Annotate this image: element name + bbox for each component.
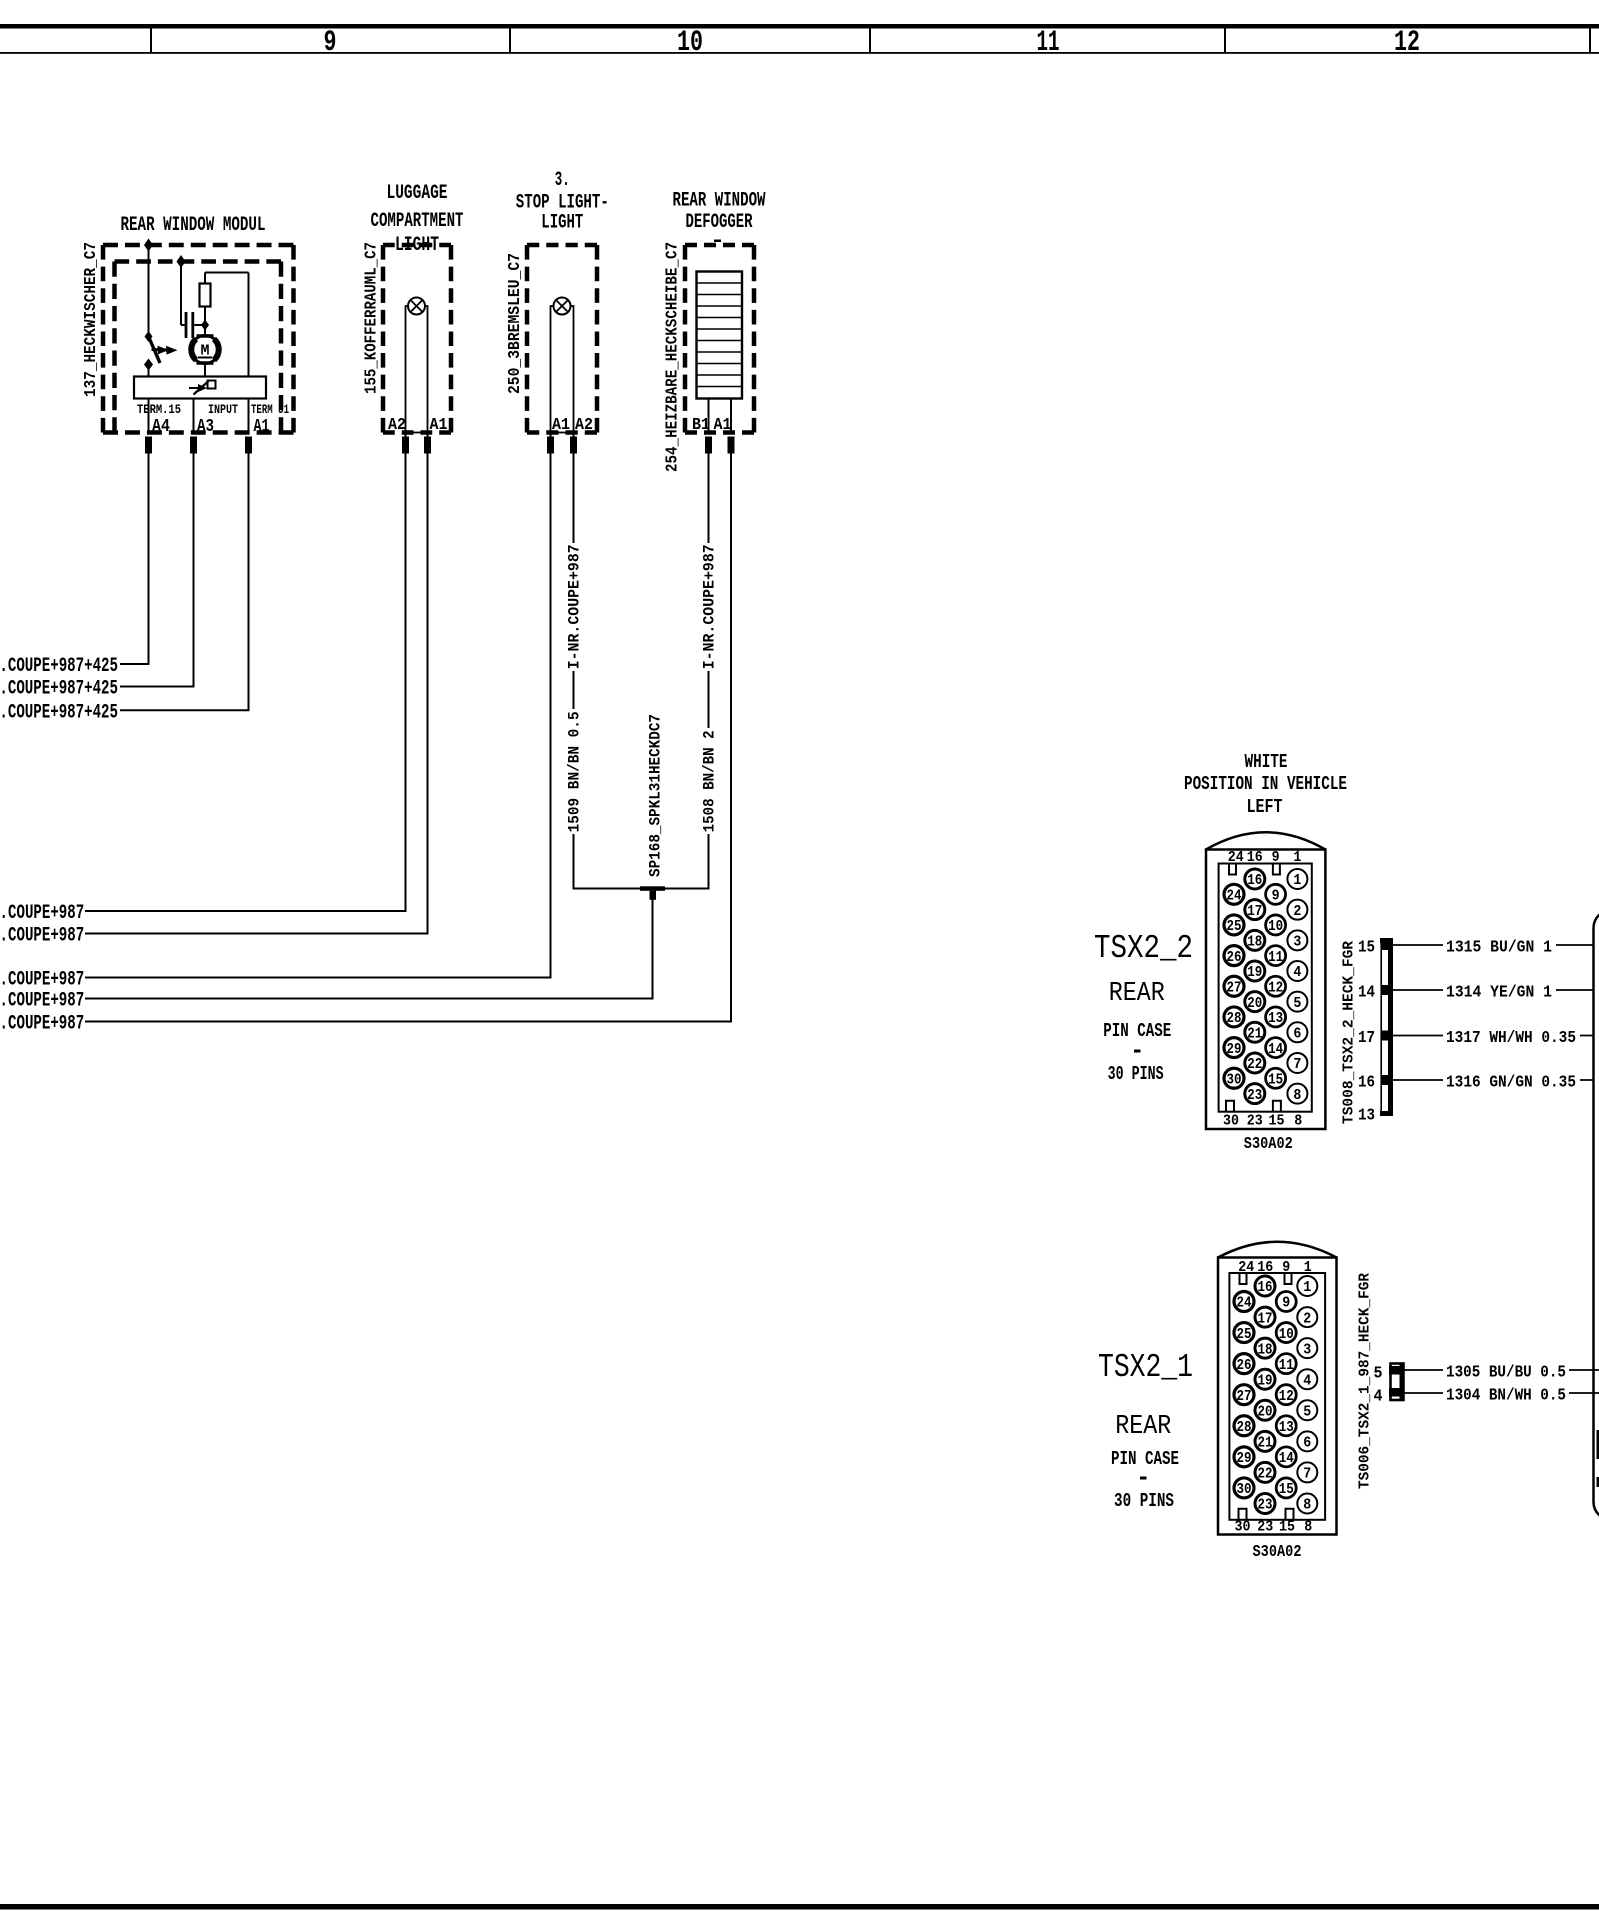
svg-text:A2: A2: [388, 416, 406, 435]
svg-text:20: 20: [1247, 996, 1262, 1012]
svg-text:I-NR.COUPE+987+425: I-NR.COUPE+987+425: [0, 655, 118, 678]
svg-text:8: 8: [1304, 1519, 1312, 1536]
wire 250-A1 to I-NR.COUPE+987: [85, 454, 551, 978]
svg-text:REAR WINDOW: REAR WINDOW: [673, 189, 766, 212]
border column strip line: [0, 52, 1599, 54]
svg-text:1509 BN/BN 0.5: 1509 BN/BN 0.5: [566, 711, 584, 832]
svg-text:11: 11: [1279, 1358, 1294, 1374]
svg-text:11: 11: [1268, 950, 1283, 966]
wire A4 below block: [148, 399, 150, 433]
wire switch to control block: [148, 365, 150, 377]
svg-text:1317 WH/WH 0.35: 1317 WH/WH 0.35: [1446, 1029, 1576, 1048]
svg-text:A1: A1: [714, 416, 732, 435]
svg-text:23: 23: [1257, 1519, 1273, 1536]
svg-text:29: 29: [1237, 1451, 1252, 1467]
svg-text:PIN CASE: PIN CASE: [1103, 1020, 1171, 1042]
svg-text:INPUT: INPUT: [208, 402, 238, 417]
svg-text:7: 7: [1293, 1057, 1301, 1073]
wire A1 to I-NR.COUPE+987+425: [120, 454, 249, 711]
wire 1314 YE/GN 1: [1393, 989, 1594, 991]
transistor Q1 symbol: [189, 387, 201, 389]
node on inner box top edge (input feed): [177, 255, 186, 268]
svg-text:25: 25: [1227, 919, 1242, 935]
pin A1: [245, 437, 252, 454]
svg-text:9: 9: [1272, 849, 1280, 866]
wire 155-A2 to I-NR.COUPE+987: [85, 454, 406, 912]
svg-text:30: 30: [1235, 1519, 1251, 1536]
svg-text:TERM 31: TERM 31: [251, 402, 289, 417]
svg-text:12: 12: [1279, 1389, 1294, 1405]
border bottom thick line: [0, 1904, 1599, 1910]
svg-text:30: 30: [1237, 1482, 1252, 1498]
svg-text:30 PINS: 30 PINS: [1114, 1490, 1174, 1512]
svg-text:25: 25: [1237, 1327, 1252, 1343]
connector TSX2_2 dome: [1206, 832, 1325, 849]
svg-text:TERM.15: TERM.15: [137, 402, 181, 417]
svg-text:1305 BU/BU 0.5: 1305 BU/BU 0.5: [1446, 1364, 1566, 1383]
TSX2_2 top notches: [1229, 864, 1236, 875]
svg-text:254_HEIZBARE_HECKSCHEIBE_C7: 254_HEIZBARE_HECKSCHEIBE_C7: [664, 242, 683, 472]
TSX2_2 pin grid (pins 1-30): [1287, 869, 1307, 889]
svg-text:A1: A1: [552, 416, 570, 435]
right module vertical label fragment: [1597, 1430, 1599, 1459]
svg-text:13: 13: [1268, 1011, 1283, 1027]
connector TSX2_1 inner body: [1229, 1273, 1325, 1520]
svg-text:13: 13: [1358, 1107, 1375, 1126]
svg-text:28: 28: [1237, 1420, 1252, 1436]
wire stubs to pins (250): [550, 433, 552, 438]
svg-text:LUGGAGE: LUGGAGE: [387, 182, 448, 205]
component 250_3BREMSLEU_C7 dashed box: [527, 243, 597, 248]
svg-text:REAR: REAR: [1115, 1412, 1171, 1442]
connector TSX2_1 outer body: [1218, 1258, 1337, 1535]
motor M1: [191, 336, 219, 364]
wire 1317 WH/WH 0.35: [1393, 1035, 1594, 1037]
svg-text:TS008_TSX2_2_HECK_FGR: TS008_TSX2_2_HECK_FGR: [1341, 941, 1358, 1124]
svg-text:8: 8: [1303, 1498, 1311, 1514]
svg-text:17: 17: [1247, 904, 1262, 920]
svg-text:POSITION IN VEHICLE: POSITION IN VEHICLE: [1184, 773, 1347, 795]
lamp E1 (bulb): [408, 298, 425, 315]
resistor R1: [200, 284, 211, 307]
svg-text:WHITE: WHITE: [1245, 751, 1288, 773]
wire resistor bottom to motor: [204, 307, 206, 336]
svg-text:1304 BN/WH 0.5: 1304 BN/WH 0.5: [1446, 1387, 1566, 1406]
wire 1509 BN/BN 0.5 (250-A2 to splice): [574, 454, 641, 889]
pin A1 (254): [728, 437, 735, 454]
svg-text:15: 15: [1268, 1072, 1283, 1088]
svg-text:18: 18: [1258, 1342, 1273, 1358]
svg-text:19: 19: [1258, 1373, 1273, 1389]
svg-text:TSX2_1: TSX2_1: [1098, 1349, 1193, 1386]
svg-text:24: 24: [1228, 849, 1244, 866]
svg-text:A2: A2: [575, 416, 593, 435]
connector TSX2_2 inner body: [1219, 864, 1312, 1112]
svg-text:15: 15: [1279, 1519, 1295, 1536]
svg-text:4: 4: [1293, 965, 1301, 981]
svg-text:I-NR.COUPE+987: I-NR.COUPE+987: [701, 544, 719, 669]
svg-text:16: 16: [1247, 873, 1262, 889]
svg-text:12: 12: [1394, 26, 1420, 60]
svg-text:A3: A3: [197, 417, 214, 437]
connector TSX2_1 dome: [1218, 1242, 1337, 1258]
control block (output stage): [134, 377, 266, 399]
svg-text:I-NR.COUPE+987+425: I-NR.COUPE+987+425: [0, 678, 118, 701]
svg-text:REAR WINDOW MODUL: REAR WINDOW MODUL: [121, 214, 266, 237]
svg-text:A1: A1: [430, 416, 448, 435]
wire splice to I-NR.COUPE+987: [85, 899, 653, 999]
svg-text:5: 5: [1303, 1404, 1311, 1420]
wire 1316 GN/GN 0.35: [1393, 1079, 1594, 1081]
svg-text:DEFOGGER: DEFOGGER: [686, 211, 753, 234]
node capacitor-motor junction: [201, 320, 209, 331]
svg-text:30 PINS: 30 PINS: [1108, 1063, 1164, 1085]
svg-text:1: 1: [1303, 1280, 1311, 1296]
svg-text:I-NR.COUPE+987: I-NR.COUPE+987: [566, 544, 584, 669]
svg-text:I-NR.COUPE+987: I-NR.COUPE+987: [0, 925, 84, 948]
switch S (wiper switch): [145, 331, 153, 342]
svg-text:10: 10: [677, 26, 703, 60]
svg-text:1316 GN/GN 0.35: 1316 GN/GN 0.35: [1446, 1074, 1576, 1093]
pin A4: [145, 437, 152, 454]
wire 1304 BN/WH 0.5: [1404, 1392, 1599, 1394]
TSX2_1 bracket to harness: [1391, 1364, 1404, 1401]
svg-text:23: 23: [1258, 1498, 1273, 1514]
wire 1508 BN/BN 2 (254-B1 to splice): [665, 454, 709, 889]
svg-text:S30A02: S30A02: [1253, 1543, 1302, 1562]
svg-text:28: 28: [1227, 1011, 1242, 1027]
svg-text:18: 18: [1247, 935, 1262, 951]
TSX2_1 top notches: [1240, 1273, 1247, 1284]
svg-text:29: 29: [1227, 1042, 1242, 1058]
label - (TSX2_1): [1140, 1477, 1147, 1480]
svg-text:26: 26: [1227, 950, 1242, 966]
svg-text:A4: A4: [152, 417, 170, 437]
label 1509 BN/BN 0.5: [565, 709, 582, 834]
svg-text:A1: A1: [254, 417, 270, 437]
wire A1 from heater: [730, 399, 732, 433]
lamp body rect 155: [406, 306, 428, 433]
border top thick line: [0, 24, 1599, 29]
svg-text:24: 24: [1238, 1259, 1254, 1276]
node on outer box top edge (term15 feed): [144, 239, 153, 252]
svg-text:3.: 3.: [555, 169, 570, 192]
svg-text:6: 6: [1303, 1436, 1311, 1452]
wire 155-A1 to I-NR.COUPE+987: [85, 454, 428, 934]
svg-text:9: 9: [1272, 889, 1280, 905]
svg-text:5: 5: [1374, 1365, 1383, 1384]
pin A1 (155): [424, 437, 431, 454]
svg-text:TS006_TSX2_1_987_HECK_FGR: TS006_TSX2_1_987_HECK_FGR: [1357, 1273, 1374, 1489]
pin A2 (250): [570, 437, 577, 454]
svg-text:1314 YE/GN 1: 1314 YE/GN 1: [1446, 984, 1552, 1003]
svg-text:10: 10: [1268, 919, 1283, 935]
label - (TSX2_2): [1134, 1050, 1141, 1053]
lamp E2 (bulb): [554, 298, 571, 315]
wire resistor top to A1 branch: [205, 272, 249, 274]
svg-text:26: 26: [1237, 1358, 1252, 1374]
svg-text:27: 27: [1227, 980, 1242, 996]
svg-text:16: 16: [1247, 849, 1263, 866]
svg-text:I-NR.COUPE+987: I-NR.COUPE+987: [0, 969, 84, 992]
label I-NR.COUPE+987 on wire 1509: [565, 543, 582, 671]
capacitor C1: [181, 324, 185, 326]
svg-text:9: 9: [324, 26, 337, 60]
svg-text:2: 2: [1293, 904, 1301, 920]
svg-text:14: 14: [1279, 1451, 1294, 1467]
svg-text:TSX2_2: TSX2_2: [1094, 930, 1193, 967]
svg-text:PIN CASE: PIN CASE: [1111, 1448, 1179, 1470]
svg-text:30: 30: [1227, 1072, 1242, 1088]
pin B1 (254): [705, 437, 712, 454]
svg-text:9: 9: [1282, 1259, 1290, 1276]
svg-text:19: 19: [1247, 965, 1262, 981]
svg-text:16: 16: [1258, 1280, 1273, 1296]
svg-text:S30A02: S30A02: [1244, 1135, 1293, 1154]
svg-text:23: 23: [1247, 1113, 1263, 1130]
svg-text:16: 16: [1358, 1074, 1375, 1093]
wire A3 below block: [193, 399, 195, 433]
svg-text:5: 5: [1293, 996, 1301, 1012]
svg-text:7: 7: [1303, 1467, 1311, 1483]
svg-text:8: 8: [1293, 1088, 1301, 1104]
svg-text:23: 23: [1247, 1088, 1262, 1104]
component 137_HECKWISCHER_C7 outer dashed box: [103, 243, 294, 248]
pin A3: [190, 437, 197, 454]
defogger top stub: [714, 240, 721, 243]
wire 254-A1 to I-NR.COUPE+987: [85, 454, 731, 1022]
svg-text:11: 11: [1037, 26, 1060, 60]
svg-text:17: 17: [1358, 1029, 1375, 1048]
svg-text:21: 21: [1258, 1436, 1273, 1452]
svg-text:4: 4: [1303, 1373, 1311, 1389]
svg-text:14: 14: [1358, 984, 1375, 1003]
svg-text:155_KOFFERRAUML_C7: 155_KOFFERRAUML_C7: [363, 242, 382, 394]
svg-text:1: 1: [1293, 849, 1301, 866]
svg-text:30: 30: [1223, 1113, 1239, 1130]
border column ticks: [150, 29, 152, 54]
svg-text:20: 20: [1258, 1404, 1273, 1420]
wire input vertical: [180, 262, 182, 326]
svg-text:21: 21: [1247, 1027, 1262, 1043]
svg-text:13: 13: [1279, 1420, 1294, 1436]
svg-text:24: 24: [1237, 1296, 1252, 1312]
svg-text:SP168_SPKL31HECKDC7: SP168_SPKL31HECKDC7: [647, 714, 665, 877]
wire term15 vertical into switch: [148, 245, 150, 336]
splice SP168_SPKL31HECKDC7: [640, 886, 665, 891]
right module rounded box (cut off at page edge): [1594, 910, 1599, 1520]
svg-text:14: 14: [1268, 1042, 1283, 1058]
connector TSX2_2 outer body: [1206, 850, 1325, 1130]
svg-text:15: 15: [1279, 1482, 1294, 1498]
svg-text:I-NR.COUPE+987: I-NR.COUPE+987: [0, 902, 84, 925]
wire B1 from heater: [708, 399, 710, 433]
svg-text:22: 22: [1247, 1057, 1262, 1073]
svg-text:15: 15: [1358, 939, 1375, 958]
pin A2 (155): [402, 437, 409, 454]
label 1508 BN/BN 2: [700, 728, 717, 834]
svg-text:I-NR.COUPE+987: I-NR.COUPE+987: [0, 1013, 84, 1036]
svg-text:10: 10: [1279, 1327, 1294, 1343]
wire motor to control block: [204, 364, 206, 377]
svg-text:27: 27: [1237, 1389, 1252, 1405]
svg-text:LIGHT: LIGHT: [541, 212, 583, 235]
svg-text:B1: B1: [692, 416, 710, 435]
svg-text:COMPARTMENT: COMPARTMENT: [371, 210, 464, 233]
TSX2_1 bottom notches: [1239, 1509, 1247, 1520]
svg-text:1: 1: [1293, 873, 1301, 889]
wire 1305 BU/BU 0.5: [1404, 1369, 1599, 1371]
TSX2_1 pin grid (pins 1-30): [1297, 1276, 1317, 1296]
wire stubs to pins (155): [405, 433, 407, 438]
svg-text:1: 1: [1304, 1259, 1312, 1276]
wire A4 to I-NR.COUPE+987+425: [120, 454, 149, 665]
svg-text:REAR: REAR: [1109, 979, 1165, 1009]
svg-text:4: 4: [1374, 1388, 1383, 1407]
lamp body rect 250: [551, 306, 574, 433]
svg-text:250_3BREMSLEU_C7: 250_3BREMSLEU_C7: [506, 253, 525, 394]
svg-text:9: 9: [1282, 1296, 1290, 1312]
svg-text:6: 6: [1293, 1027, 1301, 1043]
pin A1 (250): [547, 437, 554, 454]
svg-text:15: 15: [1269, 1113, 1285, 1130]
svg-text:1508 BN/BN 2: 1508 BN/BN 2: [701, 730, 719, 832]
svg-text:LIGHT: LIGHT: [395, 234, 439, 257]
TSX2_2 bracket to harness: [1388, 938, 1393, 1116]
component 155_KOFFERRAUML_C7 dashed box: [383, 243, 451, 248]
svg-text:I-NR.COUPE+987+425: I-NR.COUPE+987+425: [0, 701, 118, 724]
svg-text:12: 12: [1268, 980, 1283, 996]
svg-text:LEFT: LEFT: [1247, 796, 1283, 818]
wire A1 below block: [248, 399, 250, 433]
wire 1315 BU/GN 1: [1393, 944, 1594, 946]
svg-text:8: 8: [1294, 1113, 1302, 1130]
svg-text:2: 2: [1303, 1311, 1311, 1327]
label I-NR.COUPE+987 on wire 1508: [700, 543, 717, 671]
svg-text:137_HECKWISCHER_C7: 137_HECKWISCHER_C7: [82, 242, 101, 397]
component 254_HEIZBARE_HECKSCHEIBE_C7 dashed box: [685, 243, 754, 248]
heater element R2 (defogger grid): [697, 272, 743, 399]
TSX2_2 bottom notches: [1226, 1101, 1234, 1112]
svg-text:3: 3: [1293, 935, 1301, 951]
wire A3 to I-NR.COUPE+987+425: [120, 454, 194, 687]
svg-text:16: 16: [1257, 1259, 1273, 1276]
component 137 inner dashed box: [112, 262, 117, 433]
svg-text:3: 3: [1303, 1342, 1311, 1358]
svg-text:24: 24: [1227, 889, 1242, 905]
svg-text:I-NR.COUPE+987: I-NR.COUPE+987: [0, 990, 84, 1013]
svg-text:17: 17: [1258, 1311, 1273, 1327]
svg-text:22: 22: [1258, 1467, 1273, 1483]
svg-text:1315 BU/GN 1: 1315 BU/GN 1: [1446, 939, 1552, 958]
